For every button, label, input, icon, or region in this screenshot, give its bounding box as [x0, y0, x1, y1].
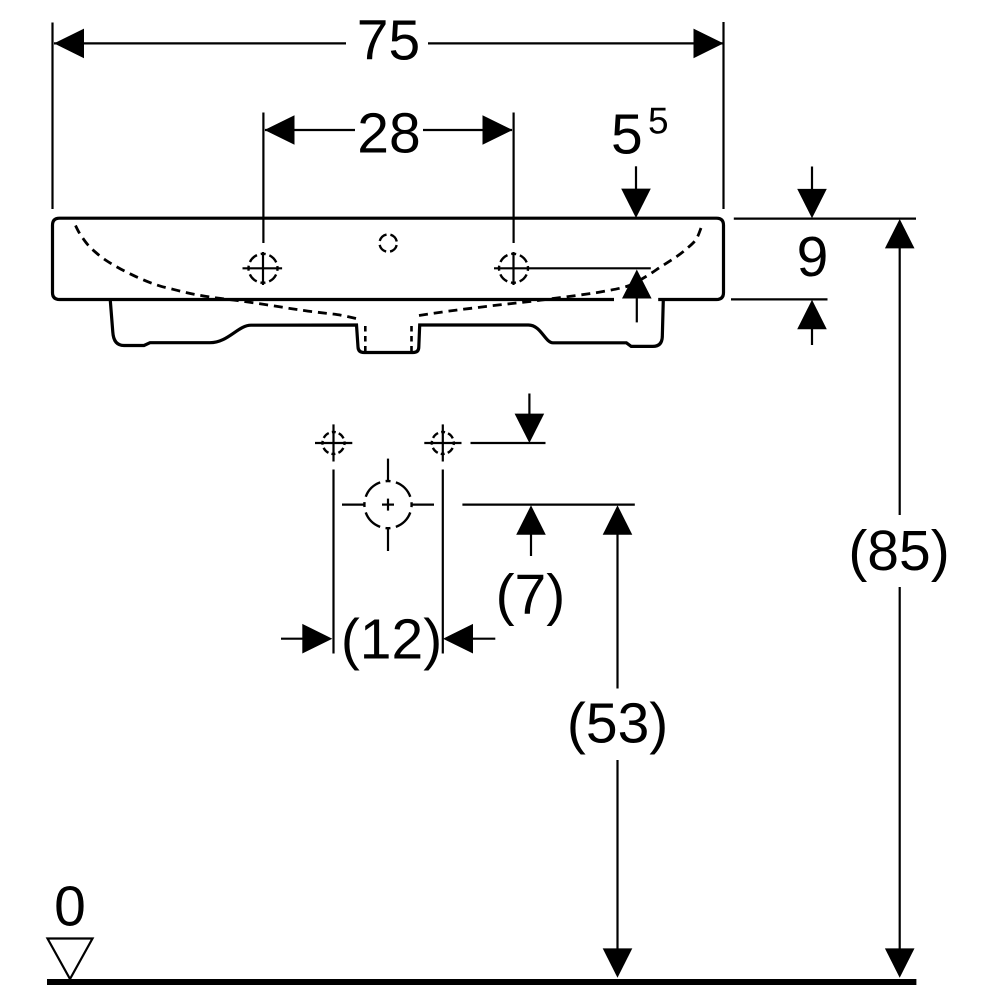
svg-text:9: 9: [797, 225, 829, 289]
svg-text:28: 28: [357, 102, 420, 166]
svg-text:(53): (53): [567, 692, 668, 756]
svg-text:5: 5: [648, 101, 669, 142]
svg-text:0: 0: [54, 875, 86, 939]
svg-text:5: 5: [611, 103, 643, 167]
svg-text:(85): (85): [848, 519, 949, 583]
svg-text:(7): (7): [496, 563, 566, 627]
svg-text:75: 75: [357, 9, 420, 73]
svg-text:(12): (12): [341, 608, 442, 672]
